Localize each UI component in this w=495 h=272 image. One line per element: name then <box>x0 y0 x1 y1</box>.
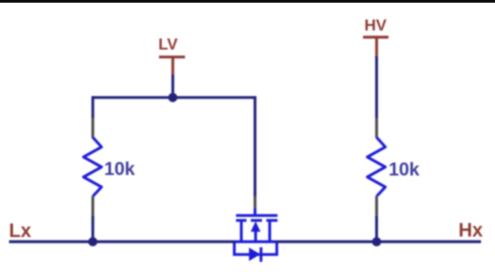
drain leg left <box>240 220 243 241</box>
wire left vertical lower <box>91 216 94 242</box>
body diode loop <box>234 242 276 255</box>
svg-text:Hx: Hx <box>459 221 484 242</box>
svg-text:Lx: Lx <box>9 221 32 242</box>
gate bar <box>236 214 278 217</box>
junction dot on top rail <box>168 93 177 102</box>
resistor R2 10k <box>367 118 420 216</box>
wire left vertical upper <box>91 96 94 118</box>
source leg right <box>268 220 271 241</box>
wire bottom right segment <box>276 240 481 243</box>
transistor Q1 n-mosfet <box>234 197 277 262</box>
wire gate vertical <box>254 96 257 196</box>
junction dot left on bottom wire <box>88 237 97 246</box>
wire HV stem down <box>375 56 378 119</box>
svg-text:10k: 10k <box>104 158 136 179</box>
wire top horizontal rail <box>92 96 257 99</box>
body diode cathode bar <box>260 247 263 261</box>
svg-text:10k: 10k <box>389 158 421 179</box>
bulk stem <box>254 231 257 242</box>
wire bottom left segment <box>9 240 235 243</box>
svg-text:HV: HV <box>364 18 387 35</box>
top border line <box>0 0 495 3</box>
body diode anode triangle <box>249 248 260 261</box>
wire right vertical lower <box>375 216 378 242</box>
power flag HV <box>363 18 389 57</box>
power flag LV <box>158 37 185 76</box>
svg-text:LV: LV <box>158 37 178 54</box>
channel bar right <box>266 219 277 222</box>
channel bar left <box>236 219 247 222</box>
source-drain rail <box>234 240 276 243</box>
bulk arrow <box>251 221 261 232</box>
resistor R1 10k <box>84 118 136 216</box>
channel bar middle <box>251 219 262 222</box>
gate pin <box>254 197 257 209</box>
wire LV stem to top rail <box>171 75 174 98</box>
junction dot right on bottom wire <box>372 237 381 246</box>
